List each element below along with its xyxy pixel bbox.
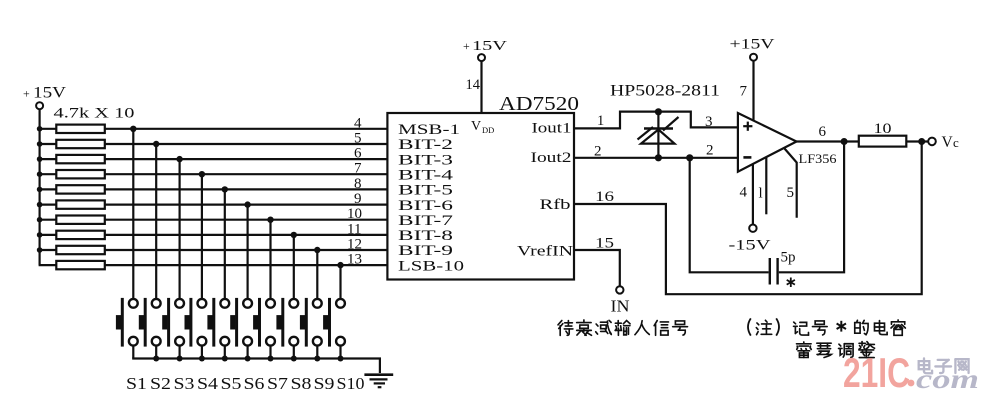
pin number 1 (offset null) (759, 186, 763, 202)
junction: row 9 to switch S9 (314, 247, 320, 253)
svg-text:BIT-4: BIT-4 (398, 167, 454, 183)
junction: bus / R2 (37, 141, 43, 147)
wire: drop row 10 to switch S10 (339, 265, 341, 299)
pin number 14 (466, 77, 481, 93)
wire: Rfb (pin 16) feedback loop to Vc node (574, 145, 922, 295)
svg-text:15V: 15V (33, 85, 67, 102)
svg-text:6: 6 (819, 124, 827, 140)
svg-text:8: 8 (354, 176, 362, 192)
terminal +15V (AD7520 pin 14) (478, 54, 485, 61)
wire: drop row 2 to switch S2 (155, 144, 157, 299)
svg-text:BIT-3: BIT-3 (398, 152, 453, 168)
pin number 12 (AD7520 left) (347, 237, 362, 253)
junction: row 4 to switch S4 (199, 171, 205, 177)
svg-text:6: 6 (354, 146, 362, 162)
label S2 (150, 374, 171, 393)
ground (364, 375, 393, 388)
junction: S6 / ground bus (245, 356, 251, 362)
junction: S10 / ground bus (338, 356, 344, 362)
note text line2: 需要调整 (797, 342, 875, 358)
label S10 (337, 374, 365, 393)
op-amp pin 1 stub (765, 157, 767, 214)
pin name Iout2 (531, 150, 572, 166)
svg-text:11: 11 (347, 221, 361, 237)
svg-text:S2: S2 (150, 374, 171, 393)
junction: bus / R7 (37, 217, 43, 223)
junction: bus / R9 (37, 247, 43, 253)
wire: drop row 8 to switch S8 (293, 235, 295, 299)
terminal IN (616, 286, 623, 293)
svg-text:4: 4 (354, 115, 362, 131)
pin name BIT-9 (398, 243, 453, 259)
pin name BIT-5 (398, 183, 453, 199)
svg-text:BIT-6: BIT-6 (398, 198, 453, 214)
switch S10 (pushbutton) (323, 298, 345, 347)
pin number 2 (op-amp inv input) (706, 143, 714, 159)
svg-text:10: 10 (347, 206, 362, 222)
svg-text:1: 1 (597, 113, 604, 129)
pin name BIT-8 (398, 228, 453, 244)
resistor R2 (4.7k) (56, 140, 105, 148)
wire: R11 to Vc terminal (906, 140, 928, 142)
wire: ground bus (133, 357, 380, 373)
svg-text:LF356: LF356 (799, 151, 838, 166)
switch S9 (pushbutton) (300, 298, 322, 347)
watermark logo .com (916, 364, 979, 394)
svg-text:IN: IN (611, 297, 630, 316)
op-amp U2 LF356 triangle (738, 113, 797, 172)
label S3 (174, 374, 195, 393)
diode D1 HP5028-2811 (across Iout1/Iout2) (638, 112, 679, 158)
junction: S9 / ground bus (314, 356, 320, 362)
label S4 (197, 374, 219, 393)
wire: row 3 from bus through R3 to AD7520 pin 6 (39, 158, 388, 160)
resistor R9 (4.7k) (56, 246, 105, 254)
terminal -15V (op-amp pin 4) (749, 225, 756, 232)
svg-text:16: 16 (595, 189, 615, 205)
wire: S2 to ground bus (155, 346, 157, 359)
wire: drop row 3 to switch S3 (179, 159, 181, 299)
svg-text:7: 7 (354, 161, 362, 177)
svg-text:21IC: 21IC (843, 349, 910, 396)
junction: row 1 to switch S1 (130, 126, 136, 132)
wire: row 8 from bus through R8 to AD7520 pin 11 (39, 234, 388, 236)
svg-text:13: 13 (347, 252, 362, 268)
pin number 11 (AD7520 left) (347, 221, 361, 237)
wire: S10 to ground bus (339, 346, 341, 359)
wire: +15V vertical bus (38, 109, 40, 265)
svg-text:+: + (463, 39, 470, 53)
svg-text:S10: S10 (337, 374, 365, 393)
label S1 (126, 374, 147, 393)
junction: S2 / ground bus (153, 356, 159, 362)
junction: S3 / ground bus (177, 356, 183, 362)
switch S4 (pushbutton) (185, 298, 207, 347)
pin number 4 (740, 185, 748, 201)
junction: bus / R4 (37, 171, 43, 177)
wire: S8 to ground bus (293, 346, 295, 359)
pin name BIT-4 (398, 167, 454, 183)
resistor R7 (4.7k) (56, 216, 105, 224)
switch S6 (pushbutton) (230, 298, 252, 347)
svg-text:S7: S7 (267, 374, 289, 393)
wire: row 2 from bus through R2 to AD7520 pin 5 (39, 143, 388, 145)
wire: row 9 from bus through R9 to AD7520 pin 12 (39, 249, 388, 251)
pin number 16 (595, 189, 615, 205)
wire: op-amp pin 4 to -15V (752, 164, 754, 225)
resistor R5 (4.7k) (56, 185, 105, 193)
junction: bus / R3 (37, 156, 43, 162)
watermark logo 21IC (843, 349, 914, 396)
wire: row 5 from bus through R5 to AD7520 pin 8 (39, 188, 388, 190)
resistor R11 (10) (859, 136, 907, 147)
wire: S4 to ground bus (201, 346, 203, 359)
pin number 7 (AD7520 left) (354, 161, 362, 177)
wire: drop row 6 to switch S6 (247, 205, 249, 299)
junction: bus / R8 (37, 232, 43, 238)
pin number 15 (595, 236, 614, 252)
wire: row 10 from bus through R10 to AD7520 pin 13 (39, 264, 388, 266)
svg-text:5: 5 (354, 131, 362, 147)
junction: Iout2 / compensation cap branch (686, 154, 693, 161)
IC U1 AD7520 body (387, 113, 574, 280)
pin number 8 (AD7520 left) (354, 176, 362, 192)
svg-text:10: 10 (874, 121, 892, 137)
junction: S8 / ground bus (291, 356, 297, 362)
junction: row 8 to switch S8 (291, 232, 297, 238)
wire: S5 to ground bus (224, 346, 226, 359)
label IN (611, 297, 630, 316)
svg-text:S9: S9 (314, 374, 335, 393)
wire: comp cap up to output node (779, 145, 844, 273)
pin number 5 (787, 185, 795, 201)
svg-text:4.7k X 10: 4.7k X 10 (54, 106, 135, 122)
wire: op-amp pin 7 to +15V (752, 61, 754, 121)
label HP5028-2811 (610, 83, 720, 100)
power label +15V (op-amp) (730, 37, 776, 53)
svg-text:BIT-9: BIT-9 (398, 243, 453, 259)
resistor R6 (4.7k) (56, 200, 105, 208)
pin name LSB-10 (398, 258, 464, 274)
svg-text:HP5028-2811: HP5028-2811 (610, 83, 720, 100)
pin name VrefIN (517, 244, 574, 260)
svg-text:l: l (759, 186, 763, 202)
junction: row 6 to switch S6 (244, 201, 250, 207)
svg-text:S3: S3 (174, 374, 195, 393)
wire: drop row 4 to switch S4 (201, 174, 203, 299)
op-amp - input mark (743, 156, 751, 159)
pin number 2 (Iout2) (594, 144, 602, 160)
svg-text:com: com (916, 364, 979, 394)
junction: row 3 to switch S3 (176, 156, 182, 162)
pin number 9 (AD7520 left) (354, 191, 362, 207)
resistor R10 (4.7k) (56, 261, 105, 269)
switch S3 (pushbutton) (162, 298, 184, 347)
junction: diode cathode / Iout1 (655, 108, 662, 115)
power label -15V (729, 238, 772, 254)
note text: （注）记号*的电容 需要调整 (748, 318, 905, 335)
wire: Iout2 (pin 2) to op-amp - input (574, 157, 738, 159)
svg-text:VrefIN: VrefIN (517, 244, 574, 260)
wire: drop row 9 to switch S9 (316, 250, 318, 299)
label S8 (291, 374, 312, 393)
power label +15V (AD7520) (463, 39, 507, 54)
wire: S1 to ground bus (132, 346, 134, 359)
junction: row 10 to switch S10 (337, 262, 343, 268)
switch S5 (pushbutton) (207, 298, 229, 347)
watermark logo 电子网 (919, 358, 969, 373)
wire: inv input down to comp cap (690, 158, 769, 272)
value label 10 (874, 121, 892, 137)
svg-text:5: 5 (787, 185, 795, 201)
junction: row 2 to switch S2 (153, 141, 159, 147)
wire: drop row 1 to switch S1 (132, 129, 134, 299)
resistor R3 (4.7k) (56, 155, 105, 163)
junction: diode anode / Iout2 (655, 154, 662, 161)
junction: bus / R1 (37, 126, 43, 132)
svg-text:S6: S6 (244, 374, 265, 393)
svg-text:+: + (23, 87, 30, 101)
terminal Vc (928, 138, 936, 146)
label AD7520 (499, 93, 579, 115)
svg-text:9: 9 (354, 191, 362, 207)
value label 4.7k X 10 (54, 106, 135, 122)
svg-text:15V: 15V (472, 39, 507, 54)
svg-text:4: 4 (740, 185, 748, 201)
junction: Vc node / Rfb feedback (918, 138, 925, 145)
svg-text:DD: DD (482, 125, 494, 135)
pin number 5 (AD7520 left) (354, 131, 362, 147)
svg-text:14: 14 (466, 77, 481, 93)
wire: S9 to ground bus (316, 346, 318, 359)
pin number 1 (Iout1) (597, 113, 604, 129)
wire: pin 14 to +15V (480, 61, 482, 114)
svg-text:S4: S4 (197, 374, 219, 393)
svg-text:12: 12 (347, 237, 362, 253)
pin name BIT-3 (398, 152, 453, 168)
wire: row 7 from bus through R7 to AD7520 pin 10 (39, 219, 388, 221)
pin name VDD (471, 119, 494, 135)
switch S7 (pushbutton) (253, 298, 275, 347)
svg-text:BIT-7: BIT-7 (398, 213, 453, 229)
pin number 3 (op-amp non-inv input) (705, 114, 713, 130)
terminal +15V (op-amp pin 7) (750, 54, 757, 61)
resistor R8 (4.7k) (56, 231, 105, 239)
pin name Iout1 (532, 121, 572, 137)
junction: row 5 to switch S5 (222, 186, 228, 192)
resistor R1 (4.7k) (56, 125, 105, 133)
junction: output / comp cap (841, 138, 848, 145)
wire: drop row 5 to switch S5 (224, 189, 226, 299)
svg-text:AD7520: AD7520 (499, 93, 579, 115)
label LF356 (799, 151, 838, 166)
adjust mark * (capacitor) (787, 278, 795, 288)
svg-text:-15V: -15V (729, 238, 772, 254)
svg-text:MSB-1: MSB-1 (398, 122, 460, 138)
label Vc (942, 134, 960, 151)
junction: row 7 to switch S7 (267, 217, 273, 223)
wire: Iout1 (pin 1) jog to op-amp + input (574, 112, 738, 129)
wire: S3 to ground bus (179, 346, 181, 359)
power label +15V (resistor bank supply) (23, 85, 67, 102)
wire: row 4 from bus through R4 to AD7520 pin 7 (39, 173, 388, 175)
svg-text:3: 3 (705, 114, 713, 130)
svg-text:Iout1: Iout1 (532, 121, 572, 137)
svg-text:BIT-2: BIT-2 (398, 137, 453, 153)
switch S8 (pushbutton) (276, 298, 298, 347)
pin name BIT-6 (398, 198, 453, 214)
pin name BIT-2 (398, 137, 453, 153)
wire: S6 to ground bus (247, 346, 249, 359)
resistor R4 (4.7k) (56, 170, 105, 178)
pin name MSB-1 (398, 122, 460, 138)
switch S1 (pushbutton) (116, 298, 138, 347)
svg-text:2: 2 (594, 144, 602, 160)
junction: bus / R5 (37, 187, 43, 193)
label S9 (314, 374, 335, 393)
svg-text:Rfb: Rfb (540, 197, 571, 213)
pin number 10 (AD7520 left) (347, 206, 362, 222)
wire: S7 to ground bus (269, 346, 271, 359)
svg-text:5p: 5p (781, 250, 796, 266)
pin number 4 (AD7520 left) (354, 115, 362, 131)
capacitor C1 5p (770, 258, 778, 285)
pin number 13 (AD7520 left) (347, 252, 362, 268)
junction: S5 / ground bus (222, 356, 228, 362)
junction: S7 / ground bus (268, 356, 274, 362)
switch S2 (pushbutton) (139, 298, 161, 347)
svg-text:c: c (953, 135, 959, 150)
svg-text:Iout2: Iout2 (531, 150, 572, 166)
terminal +15V (resistor bank supply) (36, 102, 43, 109)
svg-text:LSB-10: LSB-10 (398, 258, 464, 274)
svg-text:2: 2 (706, 143, 714, 159)
svg-text:V: V (471, 119, 481, 134)
pin name Rfb (540, 197, 571, 213)
svg-text:7: 7 (740, 84, 748, 100)
wire: drop row 7 to switch S7 (269, 220, 271, 299)
wire: row 6 from bus through R6 to AD7520 pin 9 (39, 204, 388, 206)
pin number 6 (819, 124, 827, 140)
label S5 (221, 374, 242, 393)
label S7 (267, 374, 289, 393)
svg-text:V: V (942, 134, 954, 151)
wire: op-amp output pin 6 (795, 140, 859, 142)
wire: row 1 from bus through R1 to AD7520 pin 4 (39, 128, 388, 130)
svg-text:BIT-5: BIT-5 (398, 183, 453, 199)
value label 5p (781, 250, 796, 266)
label S6 (244, 374, 265, 393)
op-amp + input mark (743, 122, 752, 131)
svg-text:S5: S5 (221, 374, 242, 393)
op-amp pin 5 stub (785, 149, 797, 218)
svg-text:15: 15 (595, 236, 614, 252)
svg-text:+15V: +15V (730, 37, 776, 53)
wire: VrefIN (pin 15) to IN terminal (574, 250, 620, 286)
pin number 7 (740, 84, 748, 100)
pin name BIT-7 (398, 213, 453, 229)
junction: bus / R6 (37, 202, 43, 208)
svg-text:S8: S8 (291, 374, 312, 393)
junction: S4 / ground bus (199, 356, 205, 362)
svg-text:BIT-8: BIT-8 (398, 228, 453, 244)
svg-text:S1: S1 (126, 374, 147, 393)
pin number 6 (AD7520 left) (354, 146, 362, 162)
note text: 待衰减输入信号 (input signal to be attenuated) (558, 320, 687, 335)
